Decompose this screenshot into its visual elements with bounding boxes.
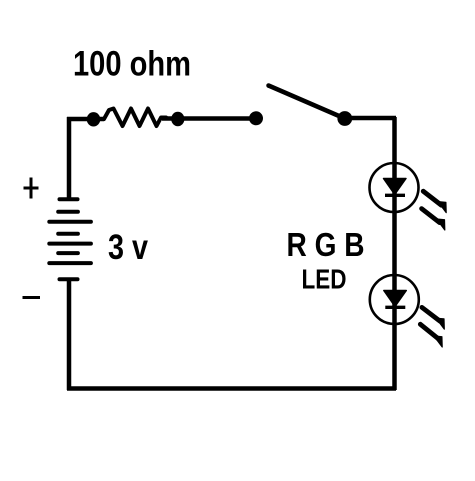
battery BT1 plate short 2 [58, 232, 78, 236]
LED D2 circle [370, 275, 419, 324]
battery BT1 bottom terminal cap [60, 277, 78, 281]
LED D1 anode triangle [384, 179, 407, 195]
wire: left vertical (battery bottom lead) [67, 280, 72, 390]
battery BT1 plate long 3 [49, 261, 91, 265]
battery + polarity label [24, 178, 39, 199]
LED D2 light arrow 2 [420, 324, 442, 347]
LED D1 light arrow 1 [423, 191, 446, 212]
svg-text:100 ohm: 100 ohm [73, 45, 191, 84]
node dot: switch throw contact [337, 111, 352, 126]
wire: left vertical (battery top lead) [67, 117, 72, 200]
battery BT1 top terminal cap [60, 197, 78, 201]
switch S1 arm (open) [269, 86, 345, 119]
LED D1 circle [370, 163, 419, 212]
wire: top-left segment to resistor [67, 117, 104, 122]
LED D1 light arrow 2 [422, 209, 445, 230]
node dot: resistor left terminal [87, 112, 101, 126]
battery - polarity label [23, 296, 41, 299]
battery BT1 plate short 3 [58, 251, 78, 255]
battery BT1 plate long 1 [49, 220, 91, 224]
wire: right vertical (LED branch) [392, 117, 397, 390]
battery BT1 plate short 1 [58, 210, 78, 214]
node dot: resistor right terminal [171, 112, 184, 126]
wire: resistor to switch pole [162, 116, 256, 121]
svg-text:3 v: 3 v [108, 228, 148, 267]
wire: bottom horizontal [67, 386, 396, 391]
LED D2 cathode bar [385, 306, 405, 309]
resistor R1 (zigzag) [104, 109, 166, 127]
svg-text:R G B: R G B [287, 226, 365, 263]
battery BT1 plate long 2 [49, 242, 91, 246]
LED D2 anode triangle [384, 291, 407, 307]
svg-text:LED: LED [302, 264, 347, 295]
LED D1 cathode bar [385, 194, 405, 197]
LED D2 light arrow 1 [422, 307, 444, 329]
node dot: switch pole contact [249, 111, 263, 125]
wire: switch throw to right corner [345, 116, 396, 121]
